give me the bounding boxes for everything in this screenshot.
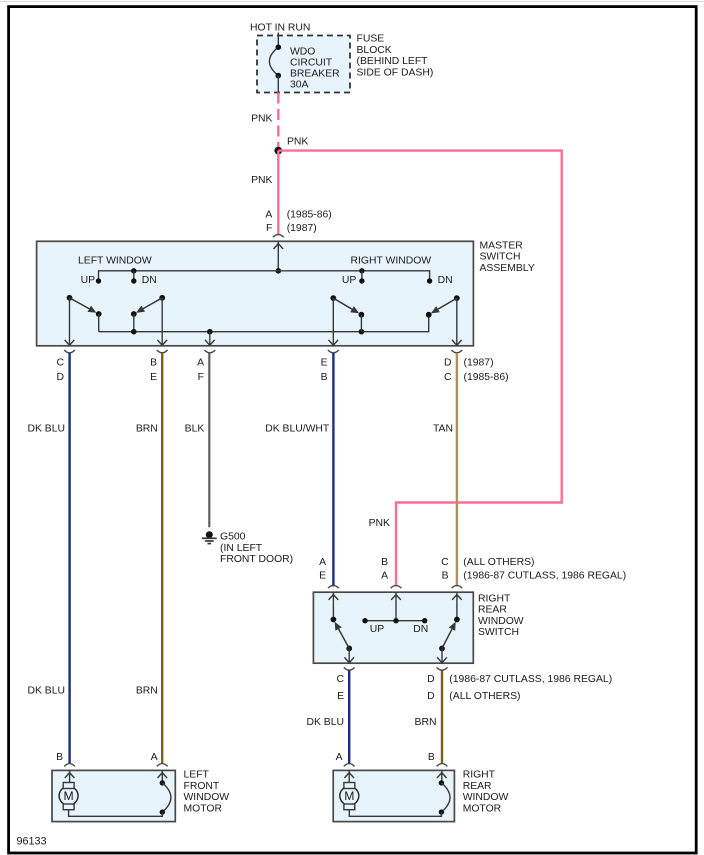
- left window switch arm 2 (pin B/E): [159, 295, 165, 301]
- svg-text:PNK: PNK: [251, 114, 272, 125]
- right window switch arm 1 contact: [359, 312, 365, 318]
- connector at master switch pin B/E: [157, 350, 168, 353]
- wire BLK to ground: [208, 353, 210, 527]
- left window DN contact: [131, 268, 136, 273]
- right window switch arm 2 contact: [426, 312, 432, 318]
- left motor internal jumper arc: [160, 780, 165, 785]
- left front window motor box: [52, 770, 175, 821]
- svg-text:RIGHT WINDOW: RIGHT WINDOW: [351, 256, 432, 267]
- svg-text:DK BLU/WHT: DK BLU/WHT: [265, 423, 330, 434]
- switch feed bar UP/DN: [365, 620, 425, 622]
- svg-text:B: B: [381, 557, 388, 568]
- top window hairline: [0, 1, 704, 3]
- svg-text:PNK: PNK: [251, 175, 272, 186]
- svg-text:M: M: [64, 789, 74, 803]
- svg-text:BRN: BRN: [136, 423, 158, 434]
- wire PNK branch to right rear window switch: [278, 151, 561, 587]
- connector at left motor pin B: [64, 764, 75, 767]
- svg-text:A: A: [319, 557, 326, 568]
- svg-text:C: C: [444, 372, 452, 383]
- svg-text:A: A: [197, 358, 204, 369]
- svg-text:DN: DN: [413, 624, 428, 635]
- svg-text:ASSEMBLY: ASSEMBLY: [480, 263, 535, 274]
- svg-text:G500: G500: [220, 532, 246, 543]
- svg-text:F: F: [266, 223, 272, 234]
- switch left arm to pin C/E: [346, 646, 352, 652]
- svg-text:DK BLU: DK BLU: [27, 423, 65, 434]
- svg-text:D: D: [427, 691, 435, 702]
- svg-text:E: E: [319, 571, 326, 582]
- svg-text:BLOCK: BLOCK: [357, 45, 392, 56]
- svg-text:LEFT: LEFT: [184, 770, 210, 781]
- ground G500: [206, 531, 213, 538]
- svg-text:F: F: [198, 372, 204, 383]
- right window UP contact: [359, 268, 364, 273]
- right rear window switch box: [313, 592, 473, 663]
- svg-text:RIGHT: RIGHT: [463, 770, 496, 781]
- right rear window motor box: [333, 770, 454, 821]
- svg-text:D: D: [444, 358, 452, 369]
- svg-text:30A: 30A: [290, 80, 309, 91]
- svg-text:C: C: [441, 557, 449, 568]
- wire DK BLU right rear motor up: [348, 671, 350, 764]
- svg-text:D: D: [56, 372, 64, 383]
- svg-text:REAR: REAR: [463, 781, 492, 792]
- connector at master switch pin A/F: [273, 235, 284, 238]
- svg-text:(1985-86): (1985-86): [464, 372, 509, 383]
- svg-text:SWITCH: SWITCH: [478, 627, 519, 638]
- fuse block dashed box: [257, 36, 350, 93]
- connector at switch pin C/E: [344, 667, 355, 670]
- svg-text:MASTER: MASTER: [480, 240, 524, 251]
- right motor bottom wire: [349, 810, 441, 817]
- svg-text:BRN: BRN: [136, 686, 158, 697]
- switch pin A/E contact: [331, 617, 337, 623]
- svg-text:FRONT DOOR): FRONT DOOR): [220, 554, 293, 565]
- svg-text:FUSE: FUSE: [357, 34, 385, 45]
- wire TAN right rear down: [456, 353, 458, 587]
- connector at switch pin B/A: [391, 585, 402, 588]
- left window switch arm 1 (pin C/D): [67, 295, 73, 301]
- svg-text:BRN: BRN: [415, 717, 437, 728]
- right motor M2: [340, 786, 359, 805]
- connector at switch pin A/E: [328, 585, 339, 588]
- svg-text:SIDE OF DASH): SIDE OF DASH): [357, 68, 434, 79]
- svg-text:BLK: BLK: [185, 423, 205, 434]
- svg-text:MOTOR: MOTOR: [463, 804, 502, 815]
- left window switch arm 2 contact: [131, 311, 137, 317]
- connector at left motor pin A: [157, 764, 168, 767]
- connector at master switch pin D/C: [451, 350, 462, 353]
- left motor bottom wire: [69, 810, 163, 817]
- svg-text:C: C: [336, 674, 344, 685]
- wire from HOT IN RUN into fuse block: [277, 33, 279, 48]
- svg-text:(1987): (1987): [464, 358, 494, 369]
- svg-text:WDO: WDO: [290, 46, 315, 57]
- wire to pin A/F ground exit: [209, 332, 211, 346]
- wire BRN left front motor down: [161, 353, 163, 764]
- connector at master switch pin C/D: [64, 350, 75, 353]
- connector at right motor pin A: [344, 764, 355, 767]
- connector at switch pin D/D: [437, 667, 448, 670]
- svg-text:A: A: [265, 210, 272, 221]
- connector at switch pin C/B: [452, 585, 463, 588]
- svg-text:(BEHIND LEFT: (BEHIND LEFT: [357, 56, 429, 67]
- wire BRN right rear motor down: [441, 671, 443, 764]
- wire PNK to master switch pin A/F: [277, 151, 279, 235]
- svg-text:96133: 96133: [17, 835, 47, 847]
- svg-text:REAR: REAR: [478, 605, 507, 616]
- svg-text:B: B: [56, 752, 63, 763]
- right motor internal jumper arc: [439, 780, 444, 785]
- master switch assembly box: [37, 241, 474, 345]
- svg-text:E: E: [150, 372, 157, 383]
- svg-text:E: E: [337, 691, 344, 702]
- svg-text:HOT IN RUN: HOT IN RUN: [250, 23, 310, 34]
- svg-text:D: D: [427, 674, 435, 685]
- svg-text:UP: UP: [342, 275, 357, 286]
- svg-text:A: A: [381, 571, 388, 582]
- svg-text:MOTOR: MOTOR: [184, 804, 223, 815]
- svg-text:DK BLU: DK BLU: [27, 686, 65, 697]
- connector at master switch pin E/B: [328, 350, 339, 353]
- svg-text:(1986-87 CUTLASS, 1986 REGAL): (1986-87 CUTLASS, 1986 REGAL): [463, 571, 626, 582]
- svg-text:M: M: [344, 789, 354, 803]
- svg-text:WINDOW: WINDOW: [463, 792, 509, 803]
- svg-text:A: A: [151, 752, 158, 763]
- svg-text:WINDOW: WINDOW: [184, 792, 230, 803]
- svg-text:B: B: [442, 571, 449, 582]
- svg-text:E: E: [321, 358, 328, 369]
- svg-text:B: B: [150, 358, 157, 369]
- node: PNK feed junction on bus: [276, 268, 282, 274]
- svg-text:UP: UP: [370, 624, 385, 635]
- wire from breaker to fuse block bottom: [277, 76, 279, 93]
- svg-text:(IN LEFT: (IN LEFT: [220, 543, 263, 554]
- svg-text:RIGHT: RIGHT: [478, 593, 511, 604]
- svg-text:(ALL OTHERS): (ALL OTHERS): [463, 557, 534, 568]
- wire DK BLU left front motor up: [68, 353, 70, 764]
- svg-text:CIRCUIT: CIRCUIT: [290, 57, 333, 68]
- svg-text:UP: UP: [81, 275, 96, 286]
- right window DN contact: [427, 278, 432, 283]
- svg-text:SWITCH: SWITCH: [480, 252, 521, 263]
- svg-text:TAN: TAN: [433, 423, 453, 434]
- right window switch arm 2 (pin D/C): [454, 295, 460, 301]
- circuit breaker WDO 30A (arc symbol): [269, 47, 278, 75]
- switch pin C/B contact: [454, 617, 460, 623]
- svg-text:(1987): (1987): [287, 223, 317, 234]
- connector at master switch pin A/F bottom: [204, 350, 215, 353]
- splice junction of PNK feed: [274, 147, 282, 155]
- svg-text:DN: DN: [142, 275, 157, 286]
- master switch common return bus: [99, 315, 429, 332]
- left window switch arm 1 contact: [96, 311, 102, 317]
- right window switch arm 1 (pin E/B): [330, 295, 336, 301]
- svg-text:A: A: [336, 752, 343, 763]
- svg-text:B: B: [428, 752, 435, 763]
- svg-text:BREAKER: BREAKER: [290, 69, 340, 80]
- svg-text:B: B: [321, 372, 328, 383]
- svg-text:DN: DN: [438, 275, 453, 286]
- svg-text:(1986-87 CUTLASS, 1986 REGAL): (1986-87 CUTLASS, 1986 REGAL): [449, 674, 612, 685]
- svg-text:(ALL OTHERS): (ALL OTHERS): [449, 691, 520, 702]
- left motor M1: [59, 786, 78, 805]
- svg-text:LEFT WINDOW: LEFT WINDOW: [78, 256, 152, 267]
- svg-text:DK BLU: DK BLU: [306, 717, 344, 728]
- svg-text:C: C: [56, 358, 64, 369]
- left window UP contact: [96, 278, 101, 283]
- switch right arm to pin D/D: [439, 646, 445, 652]
- svg-text:WINDOW: WINDOW: [478, 616, 524, 627]
- svg-text:FRONT: FRONT: [184, 781, 220, 792]
- connector at right motor pin B: [437, 764, 448, 767]
- wire PNK dashed from fuse block: [277, 93, 279, 148]
- svg-text:PNK: PNK: [369, 518, 390, 529]
- internal feed bus of master switch: [99, 271, 430, 281]
- svg-text:PNK: PNK: [287, 136, 308, 147]
- svg-text:(1985-86): (1985-86): [287, 210, 332, 221]
- wire DK BLU/WHT right rear up: [332, 353, 334, 587]
